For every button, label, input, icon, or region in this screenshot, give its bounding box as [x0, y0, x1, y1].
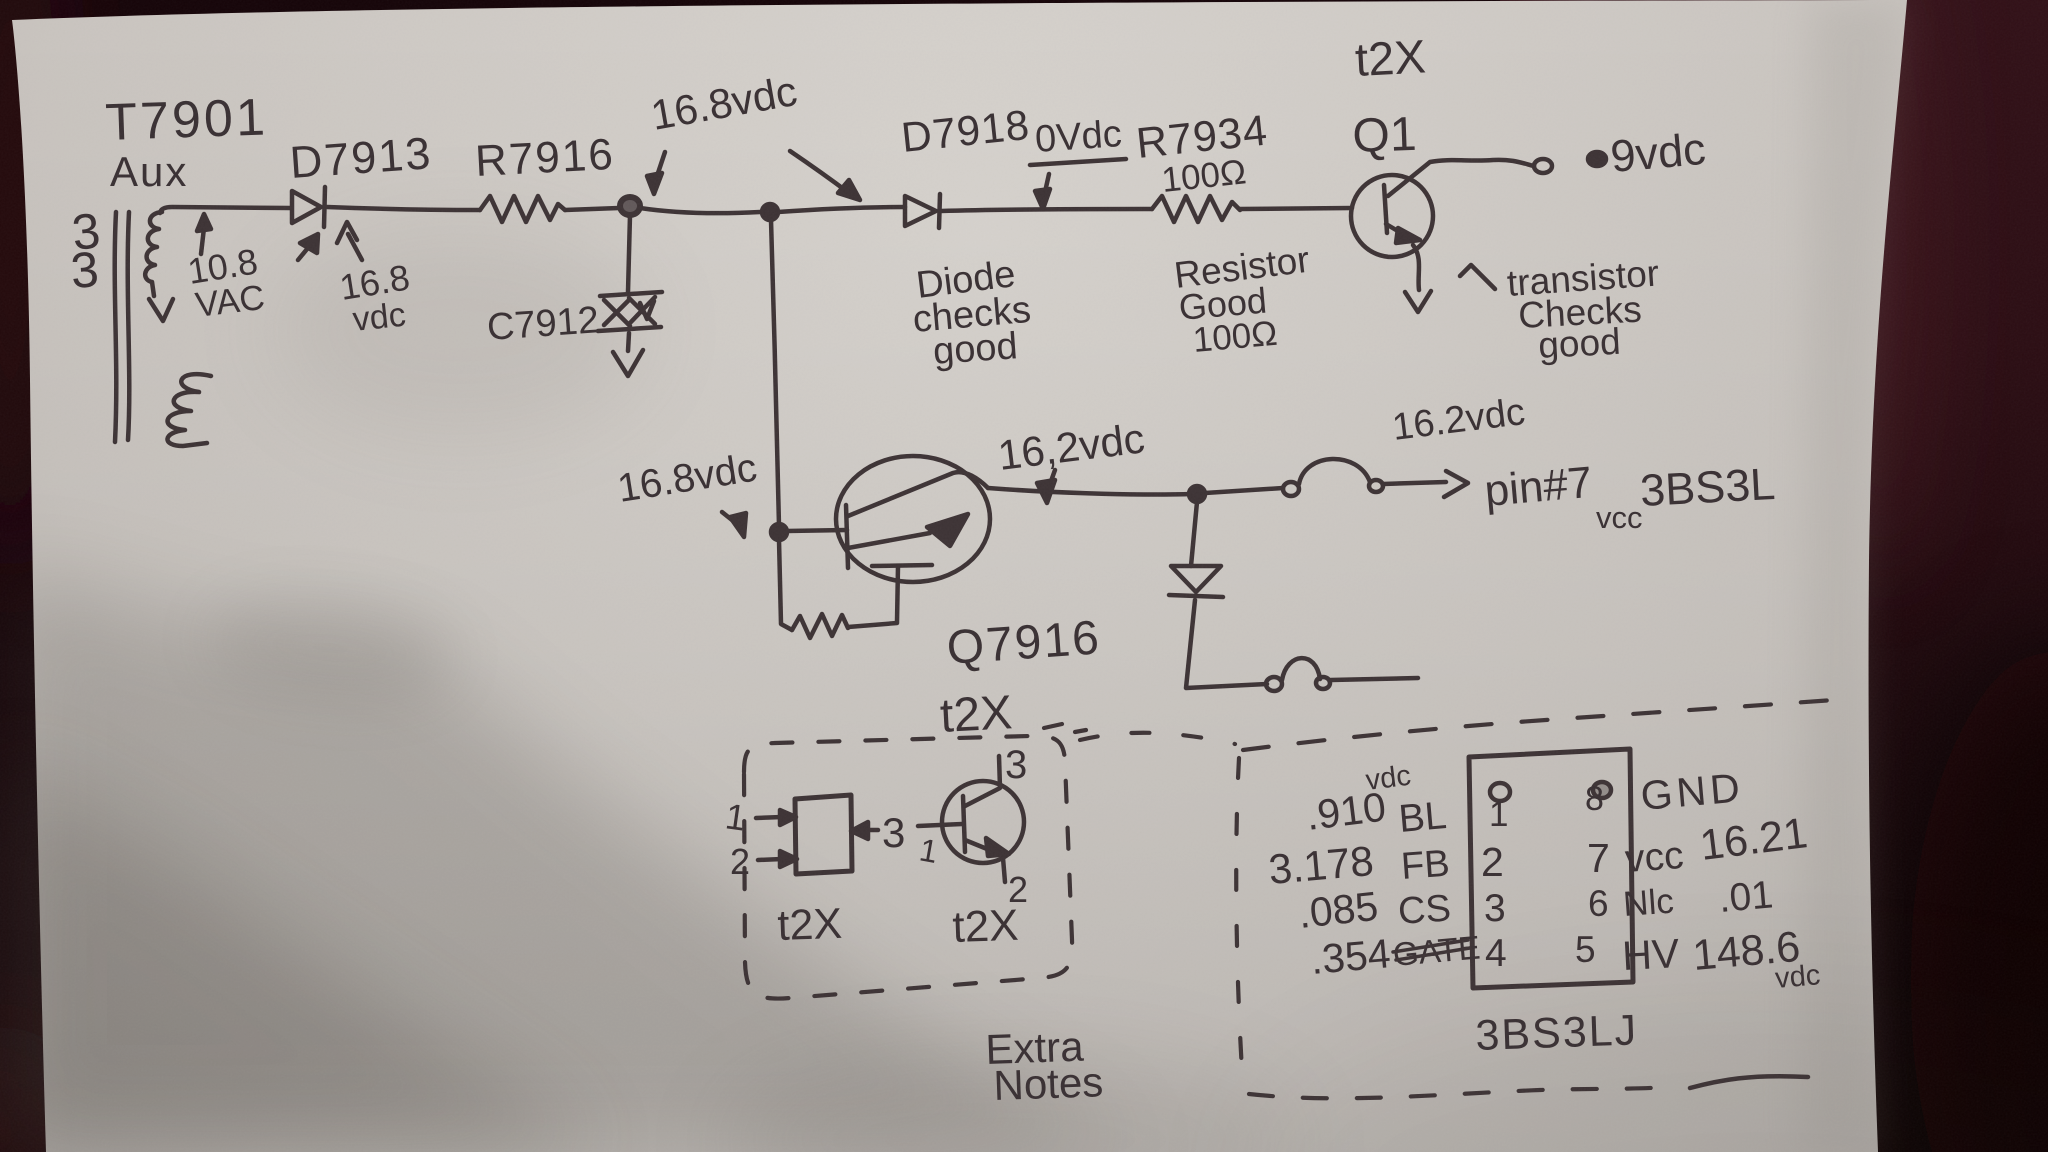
capacitor C7912 [600, 292, 662, 296]
arrow down under secondary [149, 299, 173, 321]
diode to lower hop (pointing down) [1171, 566, 1221, 592]
IC 3BS3LJ package rectangle [1469, 749, 1633, 988]
transformer core [115, 212, 117, 442]
underline of 0Vdc [1030, 159, 1126, 165]
wire R7916 to node [565, 208, 619, 210]
diode D7913 [292, 191, 321, 223]
wire feedback resistor to emitter lead [848, 623, 897, 627]
lower hop terminal loop right [1316, 677, 1330, 689]
wire end loop (collector) [1534, 159, 1552, 173]
Q7916 base bar [846, 505, 848, 568]
Q7916 internal chord [872, 565, 932, 566]
hand shadow broad [0, 565, 1150, 1152]
wire junction to D7918 [778, 207, 905, 212]
wire secondary to top rail [160, 207, 290, 213]
wire junction to hop [1205, 488, 1283, 493]
Q7916 base wire [787, 530, 847, 531]
wire junction down to diode [1191, 502, 1197, 566]
pin 2 arrow [758, 859, 782, 860]
notes transistor base wire [918, 824, 962, 826]
resistor R7934 [1152, 196, 1240, 222]
feedback resistor [792, 614, 848, 638]
Q1 base bar [1384, 185, 1387, 233]
notes transistor collector [965, 756, 1000, 806]
IC pin 1 circle [1490, 783, 1510, 801]
wire diode down and right [1186, 600, 1267, 688]
dashes right of t2X heading [1044, 724, 1086, 732]
wire node to junction [640, 208, 760, 213]
Q7916 collector [848, 472, 988, 516]
notes transistor base bar [963, 796, 965, 852]
resistor R7916 [480, 196, 565, 222]
device package rectangle [795, 795, 852, 874]
Q7916 base junction node [771, 524, 787, 540]
wire R7934 to Q1 [1240, 208, 1352, 209]
transistor Q1 body [1351, 175, 1433, 257]
transformer bottom winding [167, 374, 211, 446]
check arrow at D7913 (filled) [298, 243, 312, 260]
extra notes dashed box [744, 736, 1072, 999]
node at C7912 tap [620, 197, 640, 215]
arrowhead to pin7 [1444, 471, 1468, 497]
measurement arrow up 10.8 [201, 228, 204, 254]
wire lower hop over [1282, 658, 1320, 680]
ground arrow below C7912 [613, 350, 643, 376]
hand shadow core [0, 760, 600, 1152]
junction node at diode branch [1189, 486, 1205, 502]
pin 1 arrow [756, 817, 782, 818]
ground arrow below Q1 emitter [1405, 291, 1431, 312]
lower hop terminal loop left [1266, 677, 1282, 691]
transistor Q7916 body [836, 456, 990, 582]
transformer secondary winding [145, 212, 162, 296]
wire lower hop to right [1331, 678, 1418, 680]
wire D7913 to R7916 [327, 207, 480, 210]
hop terminal loop left [1283, 482, 1299, 496]
arrow down from 0Vdc [1045, 174, 1049, 192]
wire junction down to Q7916 base [771, 220, 779, 526]
Q1 emitter [1386, 224, 1408, 237]
IC box dashed bottom edge [1249, 1086, 1678, 1098]
annotation caret at Q1 [1460, 265, 1495, 289]
annotation curved arrow to rail [790, 151, 849, 193]
check arrow at D7913 (open) [337, 222, 362, 260]
transistor symbol in notes [942, 781, 1024, 863]
IC pin 8 circle [1593, 782, 1611, 798]
faint upper-left shade [270, 220, 650, 440]
Q7916 emitter with arrow [848, 533, 930, 548]
notes transistor emitter [965, 840, 992, 851]
feedback wire down from base node [779, 540, 792, 630]
wire hop to arrow [1383, 482, 1446, 484]
IC box dashed top edge [1243, 699, 1848, 750]
wire node down to C7912 [628, 215, 630, 292]
arrow down to collector wire [1050, 470, 1055, 484]
dashes between boxes [1080, 733, 1235, 744]
IC box dashed left edge [1236, 758, 1243, 1086]
IC box bottom wavy end stroke [1690, 1076, 1808, 1088]
pin 3 arrow [866, 828, 878, 833]
decimal dot of .9vdc [1588, 152, 1606, 166]
hand shadow finger bump [200, 585, 459, 711]
hop terminal loop right [1369, 480, 1383, 492]
hand shadow faint right extension [720, 1050, 1300, 1152]
Q7916 emitter lead down [897, 566, 898, 622]
wire Q7916 collector to junction [988, 488, 1192, 495]
wire C7912 to ground [628, 333, 629, 351]
Q1 collector [1388, 160, 1534, 196]
diode D7918 [905, 196, 936, 226]
junction node [762, 204, 778, 220]
arrow down to node [657, 152, 665, 176]
arrow to Q7916 base [722, 512, 737, 524]
wire D7918 to R7934 [941, 209, 1152, 211]
paper right-edge contact shade [1800, 0, 1907, 1152]
wire hop over [1299, 459, 1370, 484]
